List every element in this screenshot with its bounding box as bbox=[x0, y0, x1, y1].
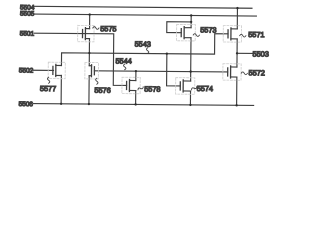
transistor 5575 bbox=[78, 25, 94, 42]
svg-text:5571: 5571 bbox=[248, 30, 264, 39]
wire drain of 5575 to 5505 bbox=[89, 15, 91, 29]
junction dot 5575 drain on 5505 bbox=[88, 13, 90, 15]
wire source 5571 / drain 5572 trunk bbox=[236, 39, 238, 67]
svg-text:5578: 5578 bbox=[144, 85, 160, 94]
wire drain 5573 to 5505 bbox=[190, 15, 192, 27]
junction dot riser on 5543 bbox=[166, 52, 168, 54]
wire drain 5571 to 5504 bbox=[236, 8, 238, 29]
junction dot 5574 on 5506 bbox=[189, 104, 191, 106]
junction dot trunk on 5543 bbox=[88, 52, 90, 54]
wire node 5544 horizontal bbox=[94, 71, 227, 72]
wire 5505 second rail bbox=[34, 14, 256, 16]
transistor 5576 (mirrored, gate right) bbox=[85, 62, 99, 79]
svg-text:5501: 5501 bbox=[20, 31, 35, 38]
wire node 5543 horizontal bbox=[61, 32, 228, 67]
transistor 5572 bbox=[223, 64, 241, 81]
wire riser 5543 to gate of 5574 bbox=[167, 54, 181, 86]
wire source 5577 to 5506 bbox=[60, 75, 62, 103]
junction dot 5578 on 5506 bbox=[134, 103, 136, 105]
svg-text:5576: 5576 bbox=[94, 86, 110, 95]
squiggle leader 5576 bbox=[96, 78, 98, 84]
svg-text:5502: 5502 bbox=[19, 67, 34, 74]
wire source 5576 to 5506 bbox=[88, 76, 90, 104]
junction dot 5573 drain on 5505 bbox=[190, 14, 192, 16]
junction dot 5578 drain on 5544 bbox=[135, 70, 137, 72]
wire source 5578 to 5506 bbox=[135, 91, 137, 105]
svg-text:5575: 5575 bbox=[100, 24, 116, 33]
junction dot 5577 on 5506 bbox=[60, 103, 62, 105]
junction dot 5572 on 5506 bbox=[235, 104, 237, 106]
wire node 5503 output stub bbox=[237, 52, 252, 54]
transistor 5578 bbox=[122, 77, 140, 94]
svg-text:5506: 5506 bbox=[19, 101, 34, 108]
svg-text:5544: 5544 bbox=[115, 56, 131, 65]
tilde leader 5571 bbox=[240, 34, 246, 37]
transistor 5573 (diode connected) bbox=[177, 24, 196, 41]
transistor 5577 bbox=[48, 62, 65, 79]
svg-text:5572: 5572 bbox=[249, 68, 265, 77]
wire 5506 bottom rail bbox=[34, 104, 254, 106]
junction dot 5571 drain on 5504 bbox=[236, 7, 238, 9]
junction dot node 5503 bbox=[236, 52, 238, 54]
wire 5504 power rail top bbox=[34, 6, 252, 8]
wire 5502 input line to gate of 5577 bbox=[33, 69, 53, 71]
svg-text:5577: 5577 bbox=[40, 84, 56, 93]
junction dot 5576 on 5506 bbox=[88, 103, 90, 105]
tilde leader 5575 bbox=[93, 27, 99, 30]
tilde leader 5578 bbox=[137, 86, 143, 91]
svg-text:5503: 5503 bbox=[253, 49, 269, 58]
squiggle leader 5577 bbox=[47, 77, 49, 83]
tilde leader 5573 bbox=[193, 34, 199, 37]
squiggle leader 5544 bbox=[124, 64, 126, 70]
svg-text:5573: 5573 bbox=[200, 25, 216, 34]
svg-text:5543: 5543 bbox=[135, 40, 151, 49]
svg-text:5505: 5505 bbox=[20, 11, 35, 18]
tilde leader 5572 bbox=[241, 72, 247, 75]
wire source 5575 / drain 5576 trunk bbox=[88, 39, 90, 66]
wire 5501 input line to gates of 5575 and 5578 bbox=[34, 33, 127, 85]
tilde leader 5574 bbox=[191, 86, 197, 91]
wire source 5574 to 5506 bbox=[189, 91, 191, 105]
wire gate loop of 5573 bbox=[167, 22, 191, 33]
wire source 5573 / drain 5574 trunk bbox=[190, 38, 192, 81]
junction dot trunk on 5544 bbox=[189, 70, 191, 72]
svg-text:5574: 5574 bbox=[197, 84, 213, 93]
squiggle leader 5543 bbox=[146, 48, 148, 54]
transistor 5571 bbox=[223, 26, 241, 43]
wire drain 5578 to 5544 bbox=[135, 71, 137, 80]
junction dot 5573 gate loop bbox=[190, 21, 192, 23]
transistor 5574 bbox=[176, 78, 195, 95]
wire source 5572 to 5506 bbox=[236, 77, 238, 105]
